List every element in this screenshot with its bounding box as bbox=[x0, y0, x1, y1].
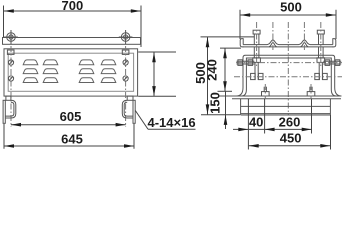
svg-text:4-14×16: 4-14×16 bbox=[148, 115, 196, 130]
svg-text:450: 450 bbox=[280, 131, 302, 146]
bolt row 1 centerline bbox=[236, 62, 342, 64]
foot left hook bbox=[5, 100, 16, 118]
svg-text:645: 645 bbox=[61, 131, 83, 146]
stud left bbox=[251, 30, 263, 80]
svg-text:500: 500 bbox=[280, 0, 302, 14]
svg-text:700: 700 bbox=[62, 0, 84, 13]
dimension 500 top bbox=[240, 10, 336, 39]
lid profile bbox=[240, 39, 336, 47]
screw bottom-left bbox=[8, 76, 13, 81]
stud right bbox=[315, 30, 327, 80]
arrow 700 right bbox=[131, 9, 141, 13]
frame outline bbox=[236, 55, 341, 96]
nut right under rail bbox=[122, 50, 129, 54]
svg-text:260: 260 bbox=[279, 114, 301, 129]
svg-text:240: 240 bbox=[205, 59, 220, 81]
screw top-right bbox=[123, 60, 128, 65]
dimension 605 bbox=[11, 124, 126, 126]
dimension 700 line bbox=[4, 6, 142, 48]
svg-text:605: 605 bbox=[60, 109, 82, 124]
dimension 645 bbox=[4, 124, 134, 149]
dimension 500 vertical bbox=[201, 37, 255, 115]
foot right nut bbox=[127, 96, 133, 100]
body outer rect bbox=[4, 49, 138, 96]
foot left nut bbox=[6, 96, 11, 100]
svg-text:150: 150 bbox=[208, 92, 223, 114]
unlabeled height dimension bbox=[138, 52, 176, 96]
hanger rail bbox=[3, 38, 141, 45]
foot left plate bbox=[3, 100, 5, 123]
bolt right circle bbox=[119, 30, 133, 44]
body inner rect bbox=[8, 53, 133, 91]
dimension 450 bbox=[249, 145, 331, 147]
centerline right bolt bbox=[125, 46, 127, 127]
dimension 150 vertical bbox=[225, 91, 227, 129]
leader line bbox=[135, 111, 195, 130]
dimensions 40 and 260 bbox=[233, 99, 331, 150]
screw top-left bbox=[8, 60, 13, 65]
bolt row 2 centerline bbox=[234, 76, 342, 78]
screw bottom-right bbox=[123, 76, 128, 81]
sill bbox=[218, 96, 341, 115]
bolt row 1 right bbox=[323, 60, 341, 66]
centerlines top bbox=[257, 22, 321, 115]
dimension 240 vertical bbox=[218, 48, 242, 91]
nut left under rail bbox=[7, 50, 14, 54]
foot right hook bbox=[122, 100, 133, 118]
foot right plate bbox=[133, 100, 135, 123]
bolt row 1 left bbox=[237, 60, 255, 66]
centerline left bolt bbox=[10, 46, 12, 127]
foot bolt right bbox=[307, 87, 315, 96]
arrow 700 left bbox=[4, 9, 14, 13]
louver group bbox=[23, 60, 116, 83]
svg-text:40: 40 bbox=[249, 114, 263, 129]
foot bolt left bbox=[262, 87, 270, 96]
bolt left circle bbox=[4, 30, 18, 44]
